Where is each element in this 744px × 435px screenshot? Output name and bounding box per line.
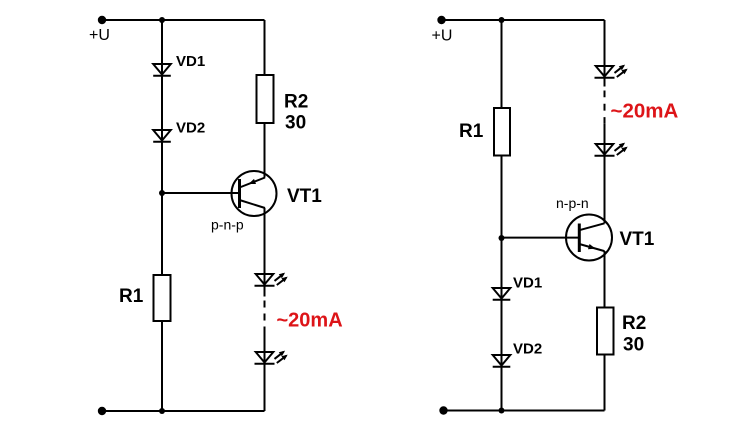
node: +U terminal dot (right circuit) [437, 16, 445, 24]
wire: collector to LED1 (left circuit) [264, 208, 266, 297]
junction: bottom rail (left circuit) [159, 408, 165, 414]
node: bottom terminal dot (left circuit) [98, 407, 106, 415]
transistor VT1 (left circuit, p-n-p) [232, 171, 277, 216]
svg-text:R1: R1 [459, 121, 484, 142]
wire: base wire (left circuit) [162, 192, 240, 194]
transistor VT1 (right circuit, n-p-n) [566, 215, 612, 261]
wire: left branch vertical (right circuit) [501, 20, 503, 411]
diode VD1 (left circuit) [153, 64, 171, 76]
wire: right branch upper segment (left circuit) [264, 20, 266, 178]
LED HL2 (left circuit, bottom) [255, 351, 288, 364]
wire: LED2 to bottom rail (left circuit) [264, 333, 266, 412]
wire: top rail (left circuit) [102, 19, 265, 21]
wire: base wire (right circuit) [502, 237, 580, 239]
svg-text:+U: +U [432, 28, 453, 45]
LED HL1 (left circuit, top) [255, 273, 288, 286]
diode VD1 (right circuit) [493, 288, 511, 300]
wire: LED2 to collector (right circuit) [604, 124, 606, 223]
LED HL1 (right circuit, top) [595, 65, 628, 78]
svg-text:R1: R1 [119, 286, 144, 307]
svg-text:~20mA: ~20mA [611, 100, 679, 123]
wire: bottom rail (left circuit) [102, 410, 265, 412]
node: bottom terminal dot (right circuit) [439, 406, 447, 414]
LED HL2 (right circuit, bottom) [595, 143, 628, 156]
wire: right branch top to LED1 (right circuit) [604, 20, 606, 87]
svg-text:p-n-p: p-n-p [211, 217, 244, 233]
svg-text:R2: R2 [622, 313, 646, 334]
wire: dashed segment between LEDs (left circuit) [264, 301, 266, 334]
junction: base node (left circuit) [159, 190, 165, 196]
svg-text:VD2: VD2 [176, 120, 205, 137]
svg-text:VD1: VD1 [513, 275, 542, 292]
resistor R1 (left circuit) [154, 275, 171, 321]
node: +U terminal dot (left circuit) [98, 16, 106, 24]
svg-text:30: 30 [285, 113, 306, 134]
resistor R2 (right circuit) [597, 308, 614, 355]
junction: bottom rail (right circuit) [499, 408, 505, 414]
junction: top rail to diode chain (left circuit) [159, 17, 165, 23]
svg-text:n-p-n: n-p-n [556, 195, 589, 211]
junction: top rail to R1 (right circuit) [499, 17, 505, 23]
svg-text:VD1: VD1 [176, 53, 205, 70]
svg-text:VT1: VT1 [620, 229, 655, 250]
svg-text:R2: R2 [284, 92, 308, 113]
wire: left branch vertical (left circuit) [161, 20, 163, 411]
svg-text:~20mA: ~20mA [277, 310, 343, 332]
wire: bottom rail (right circuit) [444, 410, 605, 412]
wire: dashed segment between LEDs (right circuit) [604, 91, 606, 125]
junction: base node (right circuit) [499, 235, 505, 241]
svg-text:+U: +U [89, 27, 110, 44]
diode VD2 (left circuit) [153, 130, 171, 142]
diode VD2 (right circuit) [493, 355, 511, 367]
svg-text:30: 30 [623, 335, 644, 356]
resistor R1 (right circuit) [494, 108, 510, 156]
svg-text:VD2: VD2 [513, 341, 542, 358]
svg-text:VT1: VT1 [287, 186, 322, 207]
wire: top rail (right circuit) [442, 19, 605, 21]
wire: emitter to R2 to bottom rail (right circuit) [604, 251, 606, 411]
resistor R2 (left circuit) [257, 75, 274, 123]
